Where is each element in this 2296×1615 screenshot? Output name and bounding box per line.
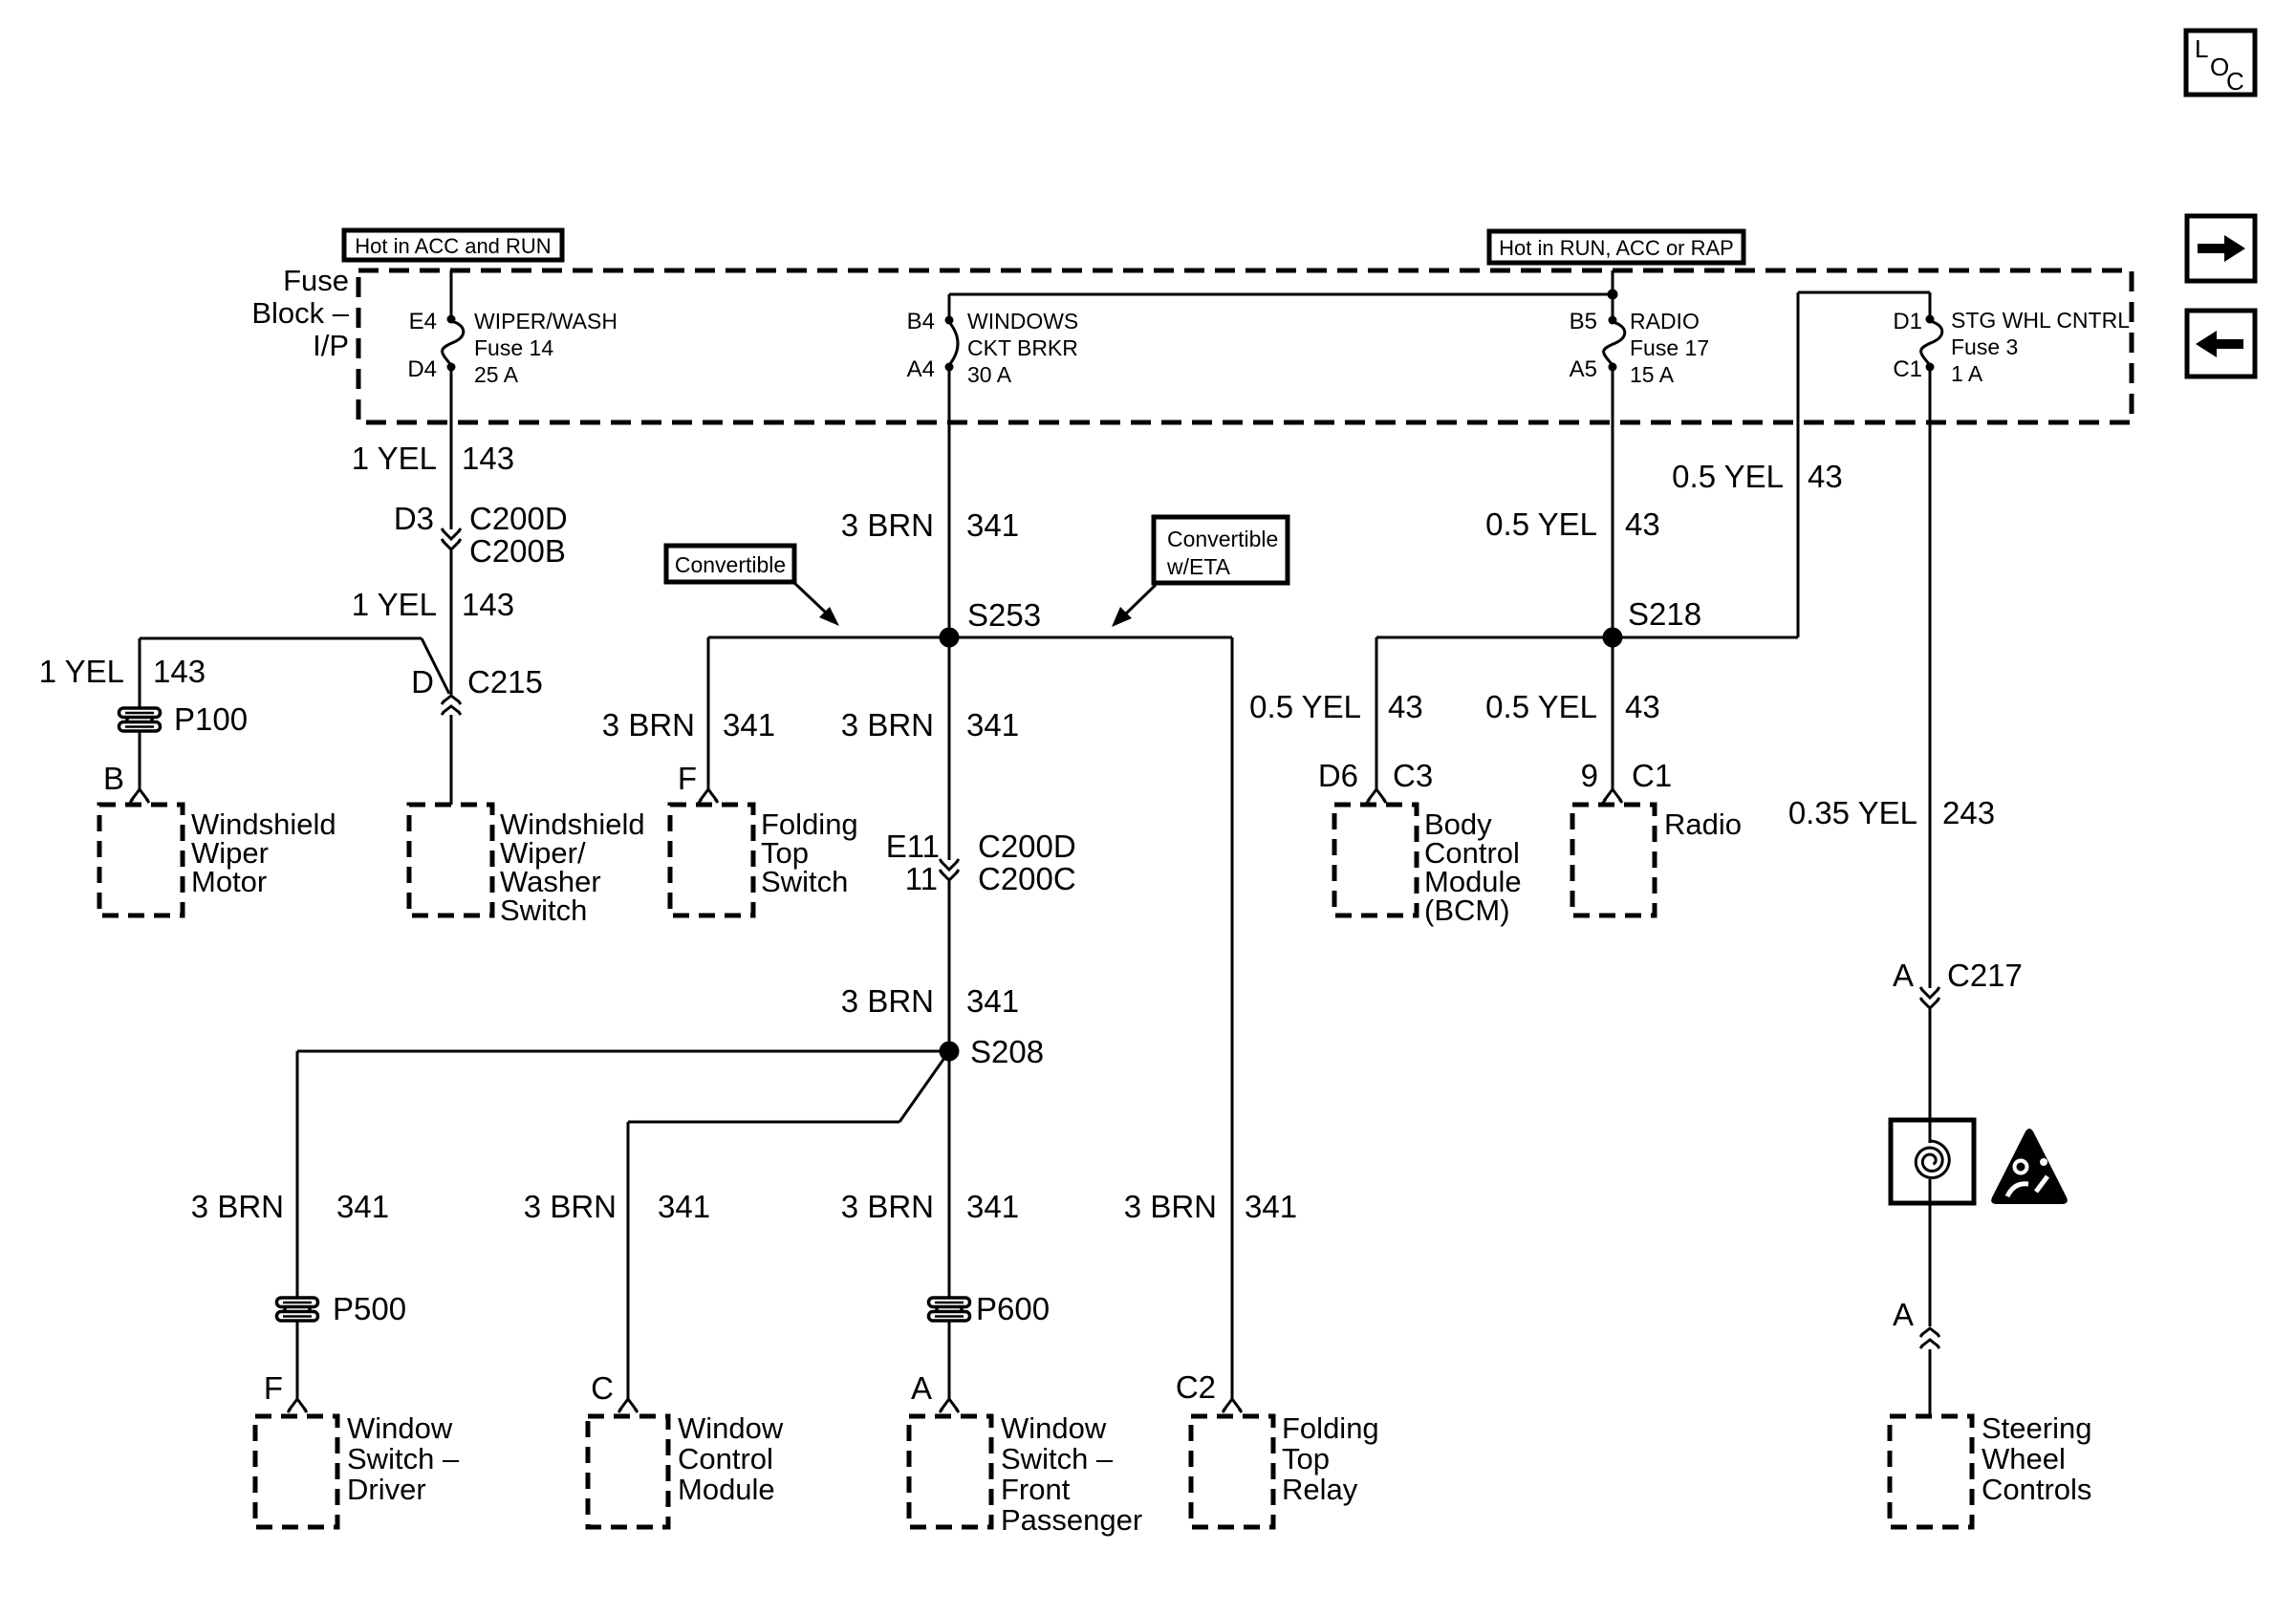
svg-text:E11: E11 — [886, 829, 940, 864]
svg-text:3 BRN: 3 BRN — [841, 983, 934, 1019]
svg-text:43: 43 — [1625, 689, 1660, 724]
svg-text:D: D — [411, 664, 434, 700]
svg-text:143: 143 — [153, 654, 206, 689]
svg-text:C3: C3 — [1393, 758, 1433, 793]
SIR coil (clockspring) box — [1891, 1120, 1974, 1203]
svg-text:3 BRN: 3 BRN — [841, 1189, 934, 1224]
svg-text:15 A: 15 A — [1630, 362, 1675, 387]
svg-text:Switch: Switch — [500, 894, 587, 927]
svg-text:WINDOWS: WINDOWS — [967, 309, 1078, 334]
svg-text:Passenger: Passenger — [1001, 1503, 1142, 1537]
svg-text:Radio: Radio — [1664, 807, 1742, 841]
folding top switch box — [670, 805, 753, 915]
svg-text:A4: A4 — [907, 356, 935, 382]
ckt brkr terminal A4 — [945, 363, 954, 372]
fuse F3 terminal C1 — [1926, 363, 1935, 372]
circuit breaker WINDOWS 30A — [949, 322, 958, 365]
arrow from Convertible w/ETA label — [1123, 585, 1156, 616]
splice S253 — [940, 628, 960, 648]
windshield wiper motor box — [99, 805, 183, 915]
svg-text:C217: C217 — [1947, 958, 2023, 993]
svg-text:Switch –: Switch – — [347, 1442, 460, 1475]
grommet P500 — [277, 1298, 318, 1307]
svg-text:A: A — [911, 1370, 932, 1406]
svg-text:43: 43 — [1625, 506, 1660, 542]
arrow from Convertible label — [792, 581, 828, 614]
svg-text:Relay: Relay — [1282, 1473, 1358, 1506]
svg-text:C200B: C200B — [469, 533, 566, 569]
label box: Convertible w/ETA — [1154, 517, 1288, 583]
svg-text:341: 341 — [658, 1189, 710, 1224]
label box: Convertible — [666, 546, 794, 582]
wire: S253 down to C200 — [948, 637, 951, 860]
right-arrow legend box — [2187, 216, 2255, 281]
svg-text:S218: S218 — [1628, 596, 1701, 632]
wire: S253 left branch to folding top switch — [708, 636, 949, 639]
svg-text:43: 43 — [1388, 689, 1423, 724]
svg-text:Block –: Block – — [251, 296, 349, 330]
svg-text:Window: Window — [678, 1411, 784, 1445]
clockspring spiral — [1916, 1141, 1949, 1178]
wire: coil to steering wheel controls — [1929, 1179, 1932, 1326]
svg-text:Steering: Steering — [1982, 1411, 2091, 1445]
SIR caution triangle — [1991, 1129, 2068, 1204]
svg-text:3 BRN: 3 BRN — [191, 1189, 284, 1224]
svg-text:Top: Top — [1282, 1442, 1330, 1475]
svg-text:341: 341 — [966, 1189, 1019, 1224]
svg-text:C200D: C200D — [978, 829, 1076, 864]
svg-text:WIPER/WASH: WIPER/WASH — [474, 309, 617, 334]
svg-text:P500: P500 — [333, 1291, 406, 1326]
wire: S208 down to front passenger switch — [948, 1051, 951, 1298]
junction node on feed bus — [1608, 290, 1618, 300]
svg-text:30 A: 30 A — [967, 362, 1012, 387]
label: Hot in RUN, ACC or RAP — [1489, 231, 1744, 263]
svg-text:11: 11 — [905, 861, 938, 896]
fuse F14 terminal D4 — [447, 363, 456, 372]
steering wheel controls box — [1890, 1416, 1972, 1527]
svg-text:3 BRN: 3 BRN — [841, 507, 934, 543]
wire: P100 to motor pin B — [139, 731, 141, 789]
svg-text:25 A: 25 A — [474, 362, 519, 387]
wire: feed to Fuse 17 — [1612, 270, 1614, 320]
fuse F17 terminal A5 — [1609, 363, 1617, 372]
wire: S208 left branch to driver window switch — [297, 1050, 949, 1053]
left-arrow legend box — [2187, 311, 2255, 377]
svg-text:C215: C215 — [467, 664, 543, 700]
svg-text:F: F — [678, 761, 697, 796]
svg-text:0.35 YEL: 0.35 YEL — [1788, 795, 1917, 830]
wire: 3 BRN 341 (brkr to S253) — [948, 367, 951, 637]
svg-text:B4: B4 — [907, 309, 935, 334]
svg-text:B: B — [103, 761, 124, 796]
svg-text:Driver: Driver — [347, 1473, 426, 1506]
folding top relay box — [1191, 1416, 1273, 1527]
svg-text:C200C: C200C — [978, 861, 1076, 896]
svg-text:S208: S208 — [970, 1034, 1044, 1069]
svg-text:P100: P100 — [174, 701, 248, 737]
svg-text:C: C — [591, 1370, 614, 1406]
svg-text:341: 341 — [1245, 1189, 1297, 1224]
svg-text:0.5 YEL: 0.5 YEL — [1249, 689, 1361, 724]
wire: C217 to SIR coil — [1929, 1009, 1932, 1143]
fuse F3 terminal D1 — [1926, 315, 1935, 324]
svg-text:STG WHL CNTRL: STG WHL CNTRL — [1951, 308, 2130, 333]
svg-text:CKT BRKR: CKT BRKR — [967, 335, 1078, 360]
svg-text:A: A — [1893, 958, 1914, 993]
windshield wiper/washer switch box — [409, 805, 492, 915]
svg-text:Fuse 3: Fuse 3 — [1951, 334, 2018, 359]
svg-text:Controls: Controls — [1982, 1473, 2091, 1506]
wire: 0.5 YEL 43 (fuse A5 to S218) — [1612, 367, 1614, 637]
svg-text:D4: D4 — [407, 356, 437, 382]
svg-text:A: A — [1893, 1297, 1914, 1332]
svg-text:S253: S253 — [967, 597, 1041, 633]
wire: S218 to radio — [1612, 637, 1614, 789]
fuse F14 WIPER/WASH 25A — [443, 321, 464, 365]
svg-text:Module: Module — [678, 1473, 775, 1506]
svg-text:3 BRN: 3 BRN — [524, 1189, 617, 1224]
svg-text:341: 341 — [966, 507, 1019, 543]
splice S218 — [1603, 628, 1623, 648]
svg-text:P600: P600 — [976, 1291, 1050, 1326]
svg-text:0.5 YEL: 0.5 YEL — [1672, 459, 1784, 494]
svg-text:Hot in ACC and RUN: Hot in ACC and RUN — [355, 234, 551, 258]
svg-text:3 BRN: 3 BRN — [602, 707, 695, 743]
svg-text:Front: Front — [1001, 1473, 1071, 1506]
wire: 1 YEL 143 (C200 to C215) — [450, 550, 453, 695]
svg-text:Control: Control — [678, 1442, 773, 1475]
svg-text:3 BRN: 3 BRN — [841, 707, 934, 743]
wire: 0.35 YEL 243 (fuse C1 to C217) — [1929, 367, 1932, 988]
svg-text:B5: B5 — [1570, 309, 1597, 334]
fuse F17 RADIO 15A — [1604, 322, 1625, 365]
svg-text:A5: A5 — [1570, 356, 1597, 382]
svg-text:Window: Window — [1001, 1411, 1107, 1445]
svg-text:D6: D6 — [1318, 758, 1358, 793]
fuse F3 STG WHL CNTRL 1A — [1921, 321, 1942, 365]
wire: S253 right branch to folding top relay — [949, 636, 1232, 639]
svg-text:C1: C1 — [1893, 356, 1922, 382]
svg-text:Switch: Switch — [761, 865, 848, 898]
svg-text:Fuse 17: Fuse 17 — [1630, 335, 1709, 360]
body control module box — [1334, 805, 1417, 915]
svg-text:Hot in RUN, ACC or RAP: Hot in RUN, ACC or RAP — [1499, 236, 1734, 260]
svg-text:Fuse 14: Fuse 14 — [474, 335, 553, 360]
svg-text:E4: E4 — [409, 309, 437, 334]
svg-text:RADIO: RADIO — [1630, 309, 1700, 334]
wire: S208 diagonal branch to window control module — [899, 1051, 949, 1122]
svg-text:L: L — [2195, 34, 2208, 63]
wire: 3 BRN 341 (C200 to S208) — [948, 881, 951, 1051]
svg-text:Convertible: Convertible — [1167, 527, 1278, 551]
svg-text:Fuse: Fuse — [283, 264, 349, 297]
svg-text:Folding: Folding — [1282, 1411, 1379, 1445]
svg-text:341: 341 — [723, 707, 775, 743]
svg-text:143: 143 — [462, 441, 514, 476]
svg-text:D3: D3 — [394, 501, 434, 536]
svg-text:143: 143 — [462, 587, 514, 622]
grommet P100 — [119, 708, 161, 718]
svg-text:243: 243 — [1942, 795, 1995, 830]
svg-text:Motor: Motor — [191, 865, 267, 898]
fuse F14 terminal E4 — [447, 315, 456, 324]
svg-text:Convertible: Convertible — [675, 552, 786, 577]
splice S208 — [940, 1042, 960, 1062]
svg-text:I/P: I/P — [313, 329, 349, 362]
fuse F17 terminal B5 — [1609, 316, 1617, 325]
svg-text:1 YEL: 1 YEL — [352, 441, 437, 476]
wire: top feed bus to CKT BRKR — [949, 293, 1613, 296]
radio box — [1572, 805, 1655, 915]
svg-text:0.5 YEL: 0.5 YEL — [1485, 506, 1597, 542]
svg-text:w/ETA: w/ETA — [1166, 554, 1231, 579]
svg-text:D1: D1 — [1893, 309, 1922, 334]
window switch front passenger box — [909, 1416, 991, 1527]
svg-text:341: 341 — [966, 707, 1019, 743]
svg-text:C2: C2 — [1176, 1369, 1216, 1405]
fuse block I/P dashed box — [358, 270, 2132, 422]
svg-text:341: 341 — [336, 1189, 389, 1224]
svg-text:341: 341 — [966, 983, 1019, 1019]
svg-text:Wheel: Wheel — [1982, 1442, 2066, 1475]
svg-text:C1: C1 — [1632, 758, 1672, 793]
wire: feed to Fuse 14 — [450, 270, 453, 319]
svg-text:Switch –: Switch – — [1001, 1442, 1114, 1475]
svg-text:3 BRN: 3 BRN — [1124, 1189, 1217, 1224]
svg-text:1 YEL: 1 YEL — [352, 587, 437, 622]
svg-text:0.5 YEL: 0.5 YEL — [1485, 689, 1597, 724]
wire: into wiper/washer switch — [450, 715, 453, 805]
window control module box — [588, 1416, 668, 1527]
label: Hot in ACC and RUN — [344, 230, 562, 260]
wire: branch to wiper motor — [140, 637, 422, 640]
LOC legend box — [2186, 31, 2255, 95]
svg-text:C: C — [2226, 67, 2244, 96]
svg-text:9: 9 — [1581, 758, 1598, 793]
grommet P600 — [929, 1298, 970, 1307]
wire: S218 left branch to BCM — [1376, 636, 1613, 639]
svg-text:(BCM): (BCM) — [1424, 894, 1510, 927]
window switch driver box — [255, 1416, 337, 1527]
svg-text:1 YEL: 1 YEL — [39, 654, 124, 689]
ckt brkr terminal B4 — [945, 316, 954, 325]
svg-text:C200D: C200D — [469, 501, 568, 536]
svg-text:1 A: 1 A — [1951, 361, 1983, 386]
svg-text:F: F — [264, 1370, 283, 1406]
svg-text:43: 43 — [1808, 459, 1843, 494]
wire: S218 right branch up to Fuse 3 feed — [1613, 636, 1798, 639]
svg-text:Window: Window — [347, 1411, 453, 1445]
wire: 1 YEL 143 (fuse D4 to C200) — [450, 367, 453, 529]
